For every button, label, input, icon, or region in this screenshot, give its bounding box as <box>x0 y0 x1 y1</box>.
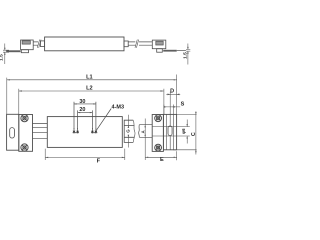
dimension D line <box>166 93 180 95</box>
dimension 1.5 left dim line <box>4 44 6 65</box>
dimension L1 extension lines <box>7 75 177 115</box>
wire: right tail <box>177 50 186 52</box>
svg-text:D: D <box>170 89 174 95</box>
side view: lead groove lines <box>152 127 190 136</box>
svg-text:20: 20 <box>79 107 85 113</box>
dimension L1 line <box>7 79 177 81</box>
svg-text:S: S <box>181 101 185 107</box>
top view: right clamp block <box>152 40 166 49</box>
dimension E line <box>145 156 177 158</box>
svg-text:L1: L1 <box>86 74 93 80</box>
front view: left clamp block <box>19 115 33 152</box>
leader line 4-M3 <box>96 109 111 131</box>
svg-text:φ6: φ6 <box>181 128 186 134</box>
svg-text:1.5: 1.5 <box>0 54 5 61</box>
svg-text:F: F <box>97 159 101 165</box>
wire: left lead top view <box>33 42 38 45</box>
front view: resistor body <box>47 117 122 148</box>
dimension E extension line right <box>176 151 178 160</box>
svg-text:4-M3: 4-M3 <box>112 105 125 111</box>
svg-text:G: G <box>126 129 131 133</box>
dimension S extension line <box>163 105 165 115</box>
front view: left bracket plate <box>7 114 19 150</box>
top view: left clamp jaw <box>21 50 28 53</box>
side view: plate slot <box>168 126 172 136</box>
dimension phi line <box>186 120 188 144</box>
wire: front view leads between clamp and body <box>33 124 48 139</box>
top view: resistor body <box>45 37 124 51</box>
hole M3 #4 <box>95 128 98 134</box>
dimension 20 line <box>78 112 93 114</box>
svg-text:1.5: 1.5 <box>182 52 188 59</box>
side view: plate inner edges <box>167 114 174 149</box>
top view: right ferrule <box>124 41 128 47</box>
front view: lead piece before right clamp <box>139 125 153 138</box>
side view: clamp block <box>152 115 163 152</box>
dimension 1.5 right extension lines <box>186 49 190 51</box>
dimension F line <box>45 156 125 158</box>
front view: left plate slot <box>10 128 15 138</box>
dimension D extension lines <box>170 92 173 115</box>
dimension 1.5 left extension lines <box>3 50 9 52</box>
dimension 20 extension lines <box>78 110 93 129</box>
screw: side bottom <box>155 144 162 151</box>
dimension S line <box>164 106 180 108</box>
dimension L2 line <box>19 90 164 92</box>
dimension 1.5 right dim line <box>187 44 189 65</box>
wire break: left lead <box>37 40 41 48</box>
top view: left clamp block <box>21 40 34 50</box>
side view: bracket plate <box>163 114 176 149</box>
hole M3 #3 <box>91 128 94 134</box>
wire break: right lead <box>135 40 139 48</box>
dimension A line <box>144 119 146 161</box>
dimension L2 extension lines <box>19 89 164 115</box>
top view: right clamp screw head <box>156 41 163 45</box>
top view: left bracket plate edge-on <box>6 50 20 52</box>
screw: front left bottom <box>21 144 28 151</box>
top view: right clamp jaw <box>157 49 163 53</box>
svg-text:L2: L2 <box>86 86 93 92</box>
screw: front left top <box>21 115 28 122</box>
svg-text:E: E <box>160 157 164 163</box>
top view: left ferrule <box>41 41 45 47</box>
hole M3 #2 <box>76 128 79 134</box>
top view: right bracket plate edge-on <box>163 50 177 52</box>
screw: side top <box>155 115 162 122</box>
svg-text:30: 30 <box>79 99 85 105</box>
svg-text:C: C <box>191 132 197 136</box>
front view: right ferrule with break <box>124 120 134 142</box>
hole M3 #1 <box>73 128 76 134</box>
dimension F extension lines <box>45 149 125 160</box>
top view: left clamp screw head <box>22 41 30 44</box>
dimension 30 extension lines <box>74 102 96 129</box>
wire: right lead after break <box>139 42 152 45</box>
dimension C extension lines <box>173 114 197 149</box>
dimension 30 line <box>74 103 96 105</box>
dimension C line <box>195 112 197 155</box>
wire: right lead top view <box>128 42 135 45</box>
hole pair bars <box>73 132 98 134</box>
dimension G line <box>127 115 129 148</box>
